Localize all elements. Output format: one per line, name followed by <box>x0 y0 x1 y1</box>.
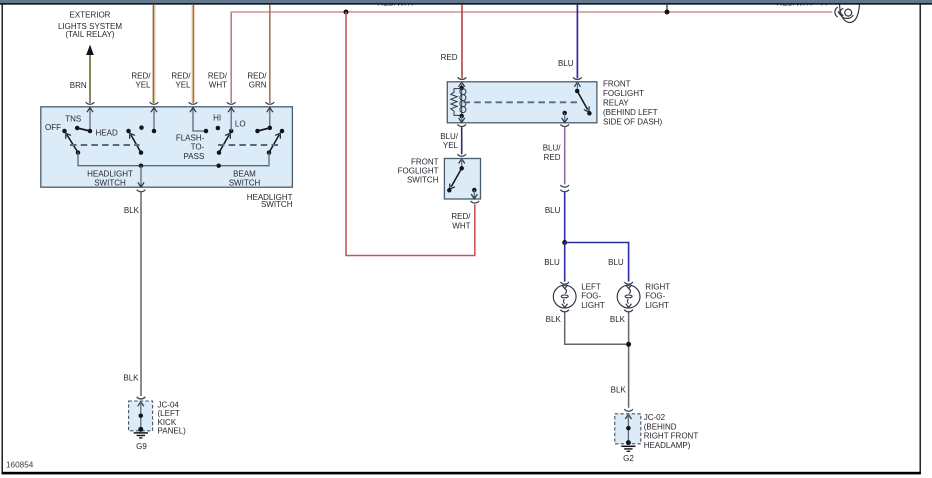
svg-text:JC-02: JC-02 <box>644 413 666 422</box>
junction node fog lights <box>562 240 567 245</box>
svg-text:HEADLIGHT: HEADLIGHT <box>87 170 133 179</box>
relay contact pin top <box>574 82 580 87</box>
contact 4M <box>268 126 273 130</box>
svg-text:WHT: WHT <box>452 221 470 230</box>
junction node with stub to top edge <box>666 5 668 11</box>
svg-text:RED/: RED/ <box>131 71 151 80</box>
svg-text:(TAIL RELAY): (TAIL RELAY) <box>65 30 115 39</box>
mechanical linkage headlight switch <box>70 144 140 146</box>
wire BLU/RED <box>564 127 566 184</box>
wire BLU branch to left lamp <box>564 243 566 282</box>
svg-text:YEL: YEL <box>443 141 459 150</box>
blade TNS-HEAD <box>77 128 90 131</box>
junction connector JC-02 box <box>615 414 641 444</box>
pin 2 (RED/YEL) with arrow <box>153 108 155 132</box>
pin 3 (RED/YEL) flash-to-pass leg <box>193 107 206 131</box>
junction connector JC-04 box <box>129 401 153 431</box>
relay coil pin top <box>459 82 465 87</box>
relay contact blade <box>577 91 587 110</box>
wiper arm pole4 <box>269 135 279 153</box>
svg-text:(BEHIND: (BEHIND <box>644 422 677 431</box>
svg-text:KICK: KICK <box>158 418 177 427</box>
contact TNS <box>75 126 80 131</box>
ground symbol G9 <box>134 432 148 434</box>
svg-text:FRONT: FRONT <box>411 158 439 167</box>
svg-text:BLU: BLU <box>545 206 561 215</box>
contact 2R <box>152 129 157 134</box>
svg-text:RED: RED <box>441 53 458 62</box>
right fog light lamp <box>624 282 633 284</box>
wire BLK from left lamp <box>565 312 627 345</box>
bus junction 1 <box>139 163 144 168</box>
svg-text:BLK: BLK <box>123 374 139 383</box>
connector cup RED/YEL1 pin <box>150 102 159 104</box>
left fog light lamp <box>560 282 569 284</box>
wiper arm pole3 <box>219 135 229 153</box>
headlight switch box <box>41 107 293 187</box>
wiper arm pole2 <box>131 135 141 153</box>
connector cup RED/GRN pin <box>266 102 275 104</box>
wire BLU/YEL <box>461 127 463 154</box>
svg-text:RED/: RED/ <box>451 212 471 221</box>
svg-text:YEL: YEL <box>135 80 151 89</box>
connector cup above JC-02 <box>624 409 633 411</box>
svg-text:RIGHT FRONT: RIGHT FRONT <box>644 432 699 441</box>
svg-text:RELAY: RELAY <box>603 99 629 108</box>
junction node on RED/WHT line <box>344 10 349 15</box>
wire RED/WHT top horizontal <box>231 11 833 13</box>
relay resistor (parallel) <box>451 89 462 116</box>
svg-text:GRN: GRN <box>249 80 267 89</box>
connector cup relay pin 4 <box>560 124 569 126</box>
svg-text:RED/: RED/ <box>208 71 228 80</box>
svg-text:G2: G2 <box>623 454 634 463</box>
relay contact node <box>575 89 580 94</box>
svg-text:RED/: RED/ <box>247 71 267 80</box>
svg-text:RED/: RED/ <box>171 71 191 80</box>
svg-text:BLK: BLK <box>611 386 627 395</box>
JC-04 pin arrow <box>138 402 144 407</box>
svg-text:FLASH-: FLASH- <box>176 134 205 143</box>
contact HEAD <box>88 129 93 134</box>
svg-text:BLU/: BLU/ <box>543 143 562 152</box>
svg-text:FOGLIGHT: FOGLIGHT <box>398 167 439 176</box>
svg-text:PANEL): PANEL) <box>158 427 187 436</box>
svg-text:SWITCH: SWITCH <box>94 178 126 187</box>
switch common bus <box>78 153 269 166</box>
svg-text:HEADLAMP): HEADLAMP) <box>644 441 691 450</box>
connector cup foglight switch pin <box>457 154 466 156</box>
connector cup above JC-04 <box>137 397 146 399</box>
svg-text:TNS: TNS <box>65 114 81 123</box>
diagram frame right border <box>919 0 921 474</box>
arrowhead to exterior lights system <box>86 45 94 55</box>
relay coil pin bottom <box>461 116 463 122</box>
svg-text:LO: LO <box>235 120 246 129</box>
foglight switch pin arrow <box>459 159 465 164</box>
diagram frame left border <box>1 0 3 474</box>
svg-text:RED: RED <box>544 153 561 162</box>
svg-text:(BEHIND LEFT: (BEHIND LEFT <box>603 108 658 117</box>
svg-text:WHT: WHT <box>209 80 227 89</box>
foglight switch output node <box>472 188 477 193</box>
svg-text:TO-: TO- <box>191 143 205 152</box>
svg-text:BLU: BLU <box>544 258 560 267</box>
top title bar <box>0 0 932 3</box>
svg-text:YEL: YEL <box>175 80 191 89</box>
in-line connector (pair of cups) <box>560 185 569 187</box>
svg-text:BLK: BLK <box>124 206 140 215</box>
svg-text:G9: G9 <box>136 442 147 451</box>
relay actuation dashed link <box>464 101 579 103</box>
JC-02 node bottom <box>626 440 631 445</box>
wire BRN to exterior lights system <box>89 53 91 103</box>
wire BLU to relay contact <box>576 5 578 79</box>
svg-text:SWITCH: SWITCH <box>407 176 439 185</box>
wire RED/WHT vertical <box>230 12 232 104</box>
foglight switch output pin <box>473 190 475 199</box>
wire RED/GRN <box>269 5 271 103</box>
wire BLU (to junction) <box>564 192 566 242</box>
off-page connector loop A <box>835 7 838 17</box>
contact 4L <box>255 129 260 134</box>
ground symbol G2 <box>621 445 635 447</box>
front foglight relay box <box>447 82 597 123</box>
blade 4L-4M <box>258 128 270 131</box>
svg-text:BLK: BLK <box>546 315 562 324</box>
contact 2L <box>126 129 131 134</box>
relay coil node top <box>459 86 464 91</box>
foglight switch contact open <box>447 188 452 193</box>
foglight switch blade <box>451 168 462 187</box>
contact 4R <box>280 129 285 134</box>
svg-text:HEAD: HEAD <box>96 129 118 138</box>
svg-text:OFF: OFF <box>45 123 61 132</box>
wire BLK from right lamp <box>628 312 630 408</box>
JC-04 node bottom <box>138 427 143 432</box>
contact FTP <box>204 129 209 134</box>
svg-text:EXTERIOR: EXTERIOR <box>70 11 111 20</box>
wire BLK left <box>140 192 142 396</box>
connector cup relay pin 3 <box>573 77 582 79</box>
wire RED to relay coil <box>461 5 463 79</box>
connector cup relay pin 2 <box>457 124 466 126</box>
switch output pin with arrow <box>140 166 142 187</box>
svg-text:SIDE OF DASH): SIDE OF DASH) <box>603 117 662 126</box>
connector cup relay pin 1 <box>458 77 467 79</box>
relay coil winding <box>461 88 463 116</box>
wire BLU branch to right lamp <box>565 243 629 282</box>
svg-text:FRONT: FRONT <box>603 80 631 89</box>
connector cup below foglight switch <box>471 201 480 203</box>
connector cup BRN pin <box>86 102 95 104</box>
svg-text:BRN: BRN <box>70 81 87 90</box>
svg-text:JC-04: JC-04 <box>158 400 180 409</box>
connector cup RED/YEL2 pin <box>189 102 198 104</box>
svg-text:SWITCH: SWITCH <box>261 200 293 209</box>
wire RED/YEL 2 <box>191 5 193 103</box>
svg-text:BLU: BLU <box>558 59 574 68</box>
svg-text:PASS: PASS <box>184 152 205 161</box>
relay coil node bottom <box>459 114 464 119</box>
svg-text:BLU: BLU <box>608 258 624 267</box>
wire RED/WHT loop to foglight switch <box>346 12 475 256</box>
contact HI <box>216 126 221 131</box>
svg-text:FOG-: FOG- <box>581 291 601 300</box>
svg-text:SWITCH: SWITCH <box>229 178 261 187</box>
foglight switch node top <box>459 166 464 171</box>
wiper arm pole1 <box>67 135 78 153</box>
JC-02 node mid <box>626 426 631 431</box>
mechanical linkage beam switch <box>218 144 280 146</box>
svg-text:FOG-: FOG- <box>645 291 665 300</box>
pin 5 (RED/GRN) <box>269 108 271 128</box>
JC-02 pin arrow <box>625 414 631 419</box>
connector cup RED/WHT pin <box>227 102 236 104</box>
JC-04 node mid <box>139 413 144 418</box>
svg-text:HI: HI <box>213 113 221 122</box>
svg-text:160854: 160854 <box>6 460 34 469</box>
svg-text:LIGHT: LIGHT <box>581 301 605 310</box>
svg-text:FOGLIGHT: FOGLIGHT <box>603 89 644 98</box>
front foglight switch box <box>444 159 480 200</box>
diagram frame bottom border <box>2 472 921 475</box>
contact 2M <box>139 125 144 130</box>
pin 1 (BRN) with arrow <box>89 108 91 132</box>
pin 4 (RED/WHT) with arrow <box>230 108 232 132</box>
wire RED/YEL 1 <box>152 5 154 103</box>
svg-text:(LEFT: (LEFT <box>158 409 180 418</box>
svg-text:LIGHT: LIGHT <box>645 301 669 310</box>
contact OFF <box>62 129 67 134</box>
relay output pin <box>564 113 566 122</box>
junction node BLK <box>626 342 631 347</box>
svg-text:BLU/: BLU/ <box>440 132 459 141</box>
connector cup below headlight switch <box>137 190 146 192</box>
relay output node <box>562 111 567 116</box>
bus junction 2 <box>216 163 221 168</box>
svg-text:BEAM: BEAM <box>233 169 256 178</box>
contact LO <box>229 129 234 134</box>
svg-text:BLK: BLK <box>610 315 626 324</box>
